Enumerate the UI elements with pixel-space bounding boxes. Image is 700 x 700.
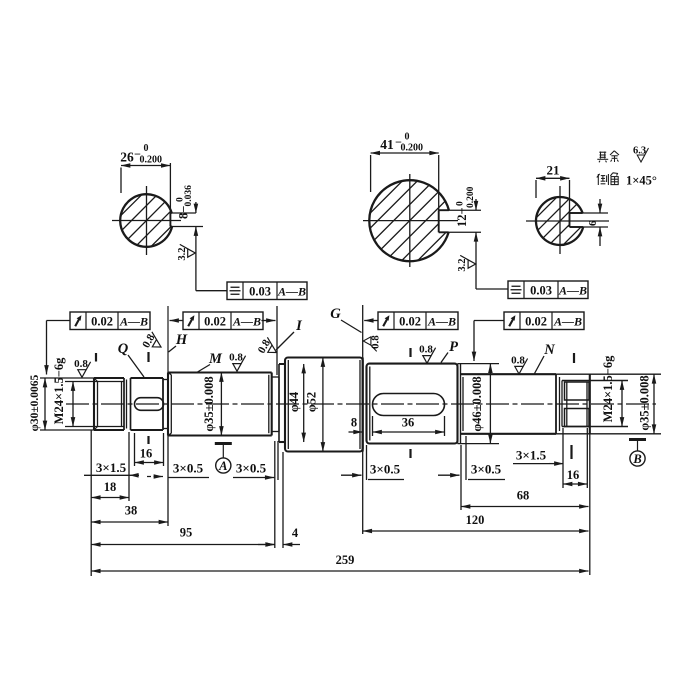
- svg-text:41: 41: [380, 137, 394, 152]
- extension lines at phi35 right / groove for 95 and 4: [274, 441, 276, 548]
- surface finish 3.2 on middle keyway: [457, 255, 476, 271]
- keyway notch on right detail circle: [570, 212, 583, 214]
- dimension 26 top-left: [121, 165, 170, 167]
- svg-text:3×0.5: 3×0.5: [173, 461, 204, 476]
- svg-text:φ35±0.008: φ35±0.008: [202, 376, 216, 431]
- keyway notch on middle detail circle: [439, 209, 449, 211]
- surface finish 0.8 on section P: [419, 344, 435, 364]
- extension line below phi52 right face: [362, 452, 364, 535]
- surface finish 0.8 rotated on phi52 right face line: [363, 335, 381, 352]
- svg-text:A—B: A—B: [277, 284, 306, 298]
- dimension phi30 +-0.0065 left: [40, 377, 94, 379]
- phi35 extension lines at right end: [556, 373, 661, 375]
- dimension 36 keyway P length: [372, 416, 374, 436]
- shaft centerline: [66, 403, 656, 405]
- svg-text:φ30±0.0065: φ30±0.0065: [29, 374, 41, 431]
- extension line phi46 left for 68: [460, 445, 462, 510]
- svg-text:38: 38: [125, 504, 138, 518]
- keyway section P outline: [367, 364, 458, 444]
- undercut groove 3x1.5 at right thread: [555, 374, 557, 434]
- svg-text:A—B: A—B: [553, 314, 582, 328]
- svg-text:0.8: 0.8: [229, 352, 243, 364]
- keyway notch on left detail circle: [170, 212, 171, 214]
- svg-text:φ44: φ44: [287, 391, 301, 412]
- extension line N left face below: [465, 436, 467, 480]
- detail section: right shaft end cross-section circle: [536, 197, 583, 245]
- dimension 68: [461, 506, 589, 508]
- dimension 6 keyway width, right detail: [570, 212, 609, 214]
- keyway slot 16 on section Q: [135, 398, 164, 411]
- tick mark below right keyway: [570, 445, 572, 459]
- svg-text:1×45°: 1×45°: [626, 174, 657, 188]
- svg-text:G: G: [330, 306, 341, 322]
- svg-text:68: 68: [517, 489, 530, 503]
- surface finish 0.8 on phi46: [511, 355, 527, 375]
- svg-text:120: 120: [466, 513, 485, 527]
- svg-text:0.8: 0.8: [74, 358, 88, 370]
- dimension 41 top-middle: [371, 152, 439, 154]
- surface finish 0.8 on left thread: [74, 358, 90, 378]
- svg-text:0.8: 0.8: [419, 344, 433, 356]
- centerlines of left detail circle: [112, 220, 181, 222]
- svg-text:18: 18: [104, 480, 117, 494]
- datum B symbol at right end: [629, 440, 646, 467]
- svg-text:3×1.5: 3×1.5: [96, 460, 127, 475]
- svg-text:P: P: [449, 339, 458, 355]
- svg-text:A: A: [218, 459, 227, 473]
- svg-text:12−: 12−: [455, 207, 469, 227]
- dimension 38: [91, 521, 168, 523]
- svg-text:3×0.5: 3×0.5: [471, 462, 502, 477]
- centerlines of right detail circle: [526, 220, 609, 222]
- chinese text dao jiao (chamfer) 1x45: [597, 173, 618, 185]
- dimension 259 overall length: [91, 570, 588, 572]
- symmetry tolerance frame 0.03 A-B (left): [227, 282, 307, 300]
- svg-text:0.03: 0.03: [249, 284, 271, 298]
- svg-text:259: 259: [336, 553, 355, 567]
- dimension phi52: [322, 358, 324, 452]
- surface finish 0.8 on phi35: [229, 352, 245, 372]
- right end keyway slot rectangles: [565, 382, 590, 400]
- datum A symbol under phi35: [215, 444, 232, 474]
- svg-text:95: 95: [180, 526, 193, 540]
- dimension phi35+-0.008 with arrows: [220, 373, 222, 436]
- dimension 120: [363, 530, 589, 532]
- svg-text:3.2: 3.2: [177, 247, 188, 260]
- extension line above phi52 right face: [362, 305, 364, 358]
- dimension phi46+-0.008: [489, 364, 491, 444]
- svg-text:8−: 8−: [177, 206, 191, 219]
- tick mark below keyway Q: [147, 436, 149, 444]
- dimension M24x1.5-6g right: [621, 381, 623, 427]
- left undercut groove 3x1.5: [126, 380, 128, 429]
- svg-text:φ46±0.008: φ46±0.008: [470, 376, 484, 431]
- svg-text:φ52: φ52: [305, 392, 319, 412]
- svg-text:21: 21: [547, 163, 560, 178]
- leader line to symmetry frame T2: [475, 243, 477, 289]
- dimension 95: [91, 544, 275, 546]
- dimension phi44: [303, 364, 305, 442]
- runout frame F2 between extension lines: [183, 312, 263, 330]
- runout frame F1 with leader to left thread: [70, 312, 150, 330]
- extension line thread end for 18: [128, 432, 130, 501]
- svg-text:36: 36: [402, 416, 415, 430]
- left thread section M24 outline: [94, 377, 124, 379]
- svg-text:M24×1.5−6g: M24×1.5−6g: [52, 357, 66, 424]
- right end face: [589, 374, 591, 434]
- extension line phi35 right for F2: [276, 306, 278, 375]
- undercut groove at phi35 left shoulder 3x0.5: [163, 379, 168, 381]
- svg-text:16: 16: [140, 447, 153, 461]
- surface finish 0.8 rotated near keyway Q: [140, 330, 165, 354]
- dimension phi35+-0.008 right end: [653, 374, 655, 434]
- dimension 16 left keyway: [134, 433, 136, 466]
- tick mark above keyway Q: [147, 352, 149, 362]
- svg-text:B: B: [632, 452, 641, 466]
- svg-text:3×1.5: 3×1.5: [516, 448, 547, 463]
- svg-text:φ35±0.008: φ35±0.008: [638, 375, 652, 430]
- leader line to symmetry frame T1: [195, 241, 197, 291]
- svg-text:0.02: 0.02: [399, 314, 421, 328]
- svg-text:A—B: A—B: [119, 314, 148, 328]
- svg-text:26: 26: [120, 150, 134, 165]
- svg-text:4: 4: [292, 526, 299, 540]
- svg-text:0.02: 0.02: [91, 314, 113, 328]
- svg-text:Q: Q: [118, 341, 129, 357]
- svg-text:8: 8: [351, 416, 357, 430]
- dimension 8 keyway P position: [349, 431, 363, 433]
- keyway slot 36 on section P: [373, 394, 445, 416]
- phi44 collar outline: [279, 363, 285, 365]
- svg-text:0.036: 0.036: [184, 185, 194, 207]
- dimension 21 top-right: [536, 177, 570, 179]
- undercut groove I 3x0.5 at phi35 right: [272, 376, 279, 378]
- extension line right end face: [589, 431, 591, 576]
- svg-text:A—B: A—B: [558, 283, 587, 297]
- svg-text:0: 0: [144, 143, 149, 154]
- hatching of middle detail circle: [355, 24, 464, 402]
- svg-text:0.02: 0.02: [204, 314, 226, 328]
- svg-text:H: H: [175, 332, 188, 348]
- svg-text:N: N: [543, 342, 555, 358]
- tick mark above right keyway: [573, 353, 575, 363]
- runout frame F3 with arrow to extension: [378, 312, 458, 330]
- hatching of right detail circle: [522, 89, 598, 353]
- svg-text:0.200: 0.200: [466, 186, 476, 208]
- centerlines of middle detail circle: [363, 220, 458, 222]
- left keyway section Q outline: [131, 377, 164, 379]
- svg-text:M24×1.5−6g: M24×1.5−6g: [601, 355, 615, 422]
- tick mark at thread axis: [95, 353, 97, 362]
- dimension M24x1.5-6g left: [72, 382, 74, 427]
- undercut groove 3x0.5 between phi52 and keyway section P: [362, 358, 364, 452]
- detail section: left shaft end cross-section circle: [120, 194, 172, 247]
- left thread end line: [123, 378, 125, 430]
- svg-text:3.2: 3.2: [457, 258, 468, 271]
- phi52 section outline: [285, 358, 363, 452]
- phi35 journal section N outline: [461, 373, 557, 375]
- surface finish 3.2 on left keyway: [177, 244, 196, 260]
- svg-text:16: 16: [567, 468, 580, 482]
- dimension 18: [91, 497, 129, 499]
- detail section: middle keyway cross-section circle: [369, 180, 449, 261]
- extension line phi35 left shoulder for 38: [167, 436, 169, 527]
- svg-text:A—B: A—B: [427, 314, 456, 328]
- svg-text:3×0.5: 3×0.5: [370, 462, 401, 477]
- svg-text:0.03: 0.03: [530, 283, 552, 297]
- phi46 dimension extension lines prolonged: [458, 363, 500, 365]
- svg-text:M: M: [208, 351, 223, 367]
- dimension 4: [258, 544, 275, 546]
- dimension 12 keyway width, middle detail: [439, 209, 481, 211]
- svg-text:A—B: A—B: [232, 314, 261, 328]
- left thread minor diameter lines: [65, 381, 124, 383]
- svg-text:0: 0: [405, 132, 410, 143]
- symmetry tolerance frame 0.03 A-B (middle): [508, 281, 588, 299]
- dimension 8 keyway width, left detail: [170, 212, 196, 214]
- tick mark below keyway P: [409, 449, 411, 458]
- svg-text:0.200: 0.200: [401, 143, 424, 154]
- runout frame F4 with leader down to phi46: [504, 312, 584, 330]
- svg-text:0: 0: [456, 201, 466, 206]
- svg-text:0.8: 0.8: [511, 355, 525, 367]
- hatching of left detail circle: [106, 73, 187, 352]
- tick mark above keyway P: [409, 348, 411, 357]
- dimension 16 right keyway: [562, 428, 564, 488]
- surface finish 0.8 rotated at undercut I: [256, 335, 281, 359]
- undercut groove 3x0.5 at end of phi46 journal: [457, 364, 459, 444]
- svg-text:0.200: 0.200: [140, 155, 163, 166]
- extension line P left face below: [366, 445, 368, 480]
- right end thread OD / extension lines: [562, 380, 628, 382]
- phi35 section M outline: [168, 372, 272, 374]
- svg-text:3×0.5: 3×0.5: [236, 461, 267, 476]
- svg-text:0.8: 0.8: [369, 335, 381, 349]
- chinese text qi yu (rest): [597, 151, 619, 163]
- svg-text:0.02: 0.02: [525, 314, 547, 328]
- extension line left end face: [90, 430, 92, 576]
- svg-text:6: 6: [587, 220, 599, 226]
